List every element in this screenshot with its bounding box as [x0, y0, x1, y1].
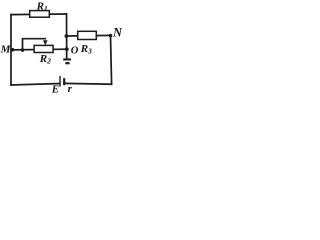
svg-text:r: r [68, 83, 73, 95]
svg-text:M: M [0, 44, 12, 56]
svg-text:E: E [51, 83, 59, 95]
svg-text:N: N [112, 26, 122, 40]
svg-text:O: O [71, 45, 79, 56]
